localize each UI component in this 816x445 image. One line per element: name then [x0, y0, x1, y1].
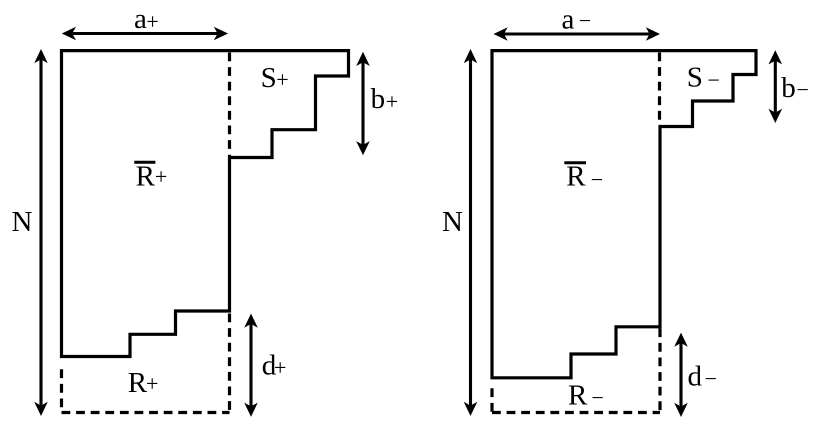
svg-text:a: a [134, 3, 147, 35]
svg-text:b: b [371, 83, 386, 115]
svg-text:a: a [562, 3, 575, 35]
dashed bounding box of R+ (left figure) [60, 369, 63, 412]
svg-text:−: − [579, 8, 591, 33]
svg-text:S: S [687, 62, 703, 94]
arrow d- (vertical double arrow, right figure) [674, 333, 688, 417]
svg-text:R: R [136, 161, 156, 193]
svg-text:−: − [708, 67, 720, 92]
svg-text:R: R [566, 160, 586, 192]
svg-text:+: + [146, 371, 158, 396]
svg-text:+: + [146, 9, 158, 34]
svg-text:N: N [442, 206, 463, 238]
arrow a- (horizontal double arrow, right figure) [494, 27, 661, 41]
arrow N (vertical double arrow, right figure) [464, 49, 478, 416]
dashed separator a- (vertical dashed line under top edge, right figure) [658, 53, 661, 126]
arrow b- (vertical double arrow, right figure) [769, 50, 783, 123]
svg-text:N: N [12, 206, 33, 238]
svg-text:−: − [797, 77, 809, 102]
svg-text:−: − [591, 167, 603, 192]
svg-text:+: + [155, 164, 167, 189]
svg-text:+: + [276, 67, 288, 92]
dashed bounding box of R- (right figure) [490, 388, 493, 412]
arrow d+ (vertical double arrow, left figure) [244, 314, 258, 417]
right region outline (boundary of R-bar-minus with S- and R- staircases) [492, 51, 756, 378]
svg-text:S: S [261, 62, 277, 94]
arrow b+ (vertical double arrow, left figure) [356, 52, 370, 156]
svg-text:−: − [592, 385, 604, 410]
svg-text:−: − [705, 366, 717, 391]
arrow a+ (horizontal double arrow, left figure) [62, 27, 228, 41]
svg-text:R: R [128, 367, 148, 399]
arrow N (vertical double arrow, left figure) [34, 49, 48, 416]
svg-text:b: b [781, 72, 796, 104]
dashed separator a+ (vertical dashed line under top edge, left figure) [228, 53, 231, 157]
left region outline (boundary of R-bar-plus with S+ and R+ staircases) [62, 51, 349, 357]
svg-text:+: + [274, 355, 286, 380]
svg-text:d: d [688, 361, 703, 393]
svg-text:R: R [568, 380, 588, 412]
svg-text:+: + [386, 89, 398, 114]
